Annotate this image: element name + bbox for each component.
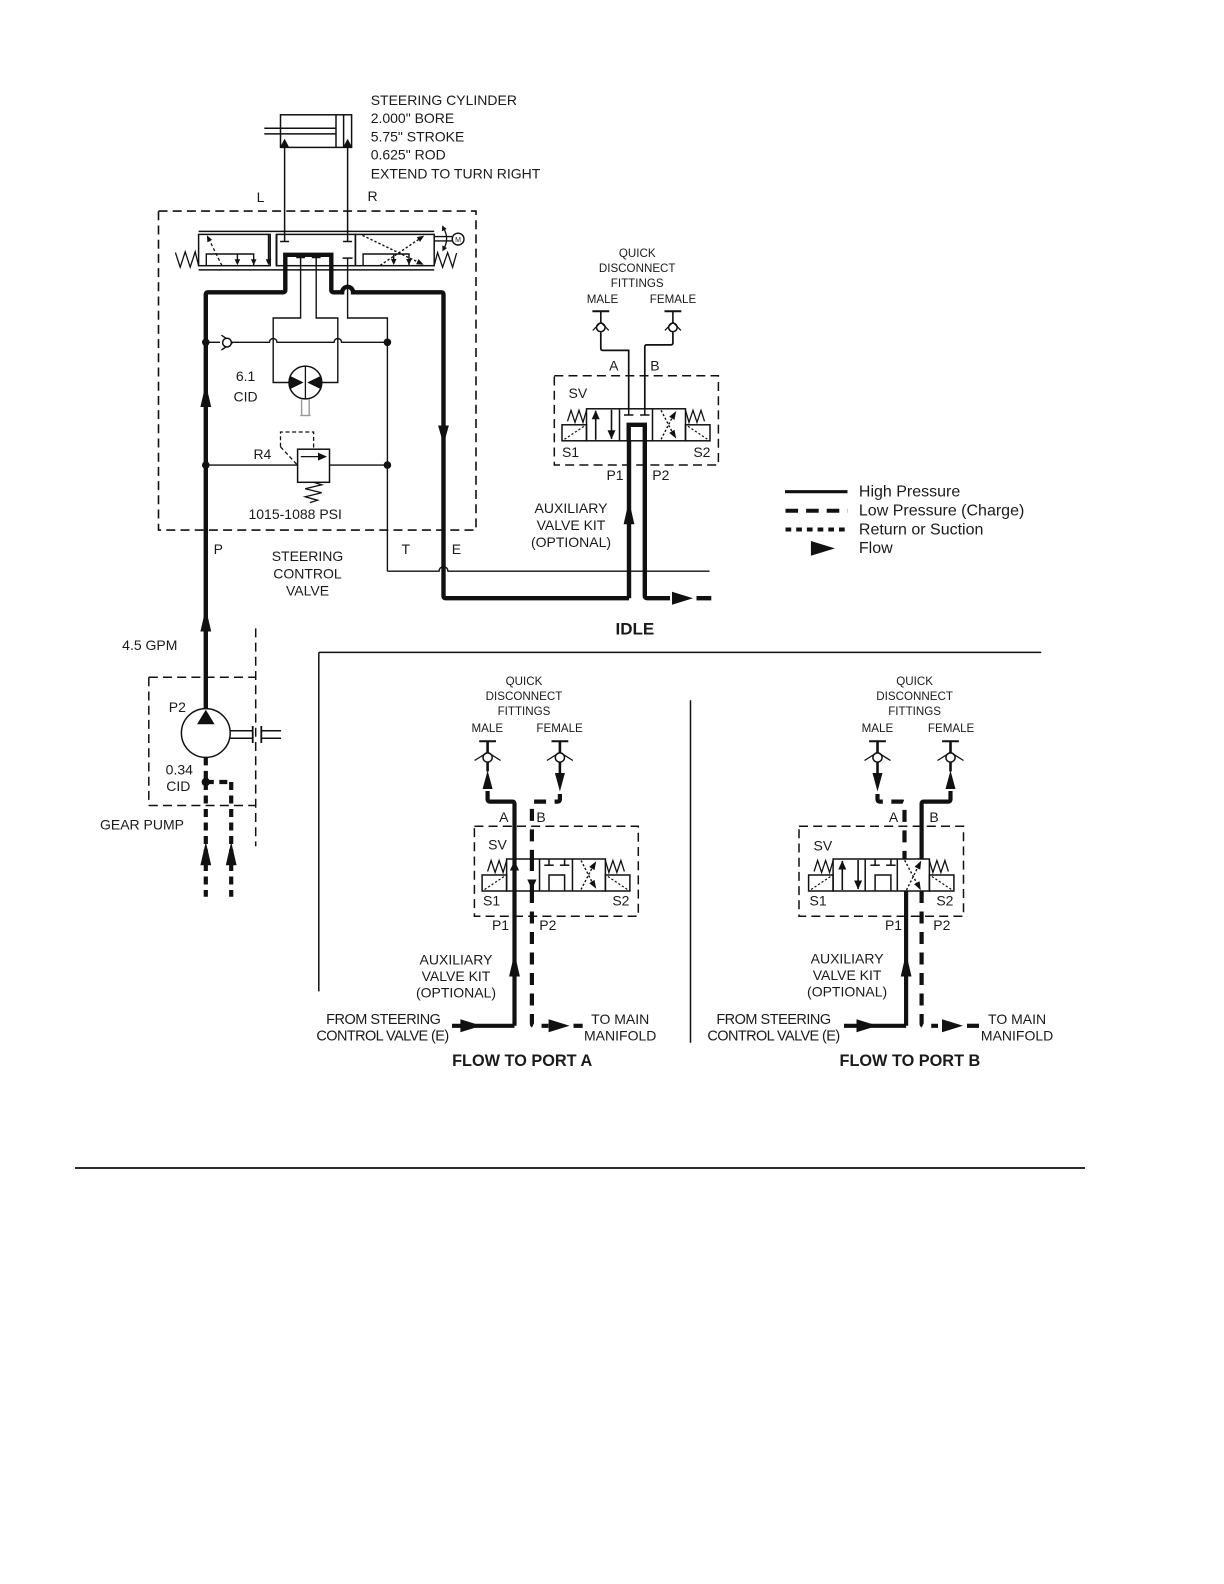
wire P supply thick [206,266,285,709]
svg-text:P2: P2 [933,917,950,933]
portA quick disconnect label [486,675,563,718]
wire return rail [387,567,709,572]
svg-text:P2: P2 [652,467,669,483]
pump drive shaft [230,726,281,743]
svg-text:SV: SV [569,385,588,401]
portA SV left position active flow [510,859,537,891]
portA label from steering [316,1012,448,1045]
svg-text:FITTINGS: FITTINGS [888,705,941,718]
svg-text:FITTINGS: FITTINGS [498,705,551,718]
flow arrow P 1 [200,384,211,408]
svg-text:AUXILIARY: AUXILIARY [420,952,494,968]
legend low pressure [786,509,848,513]
idle male quick disconnect fitting [592,310,609,312]
svg-text:VALVE KIT: VALVE KIT [813,967,882,983]
svg-text:VALVE: VALVE [286,583,329,599]
svg-text:5.75" STROKE: 5.75" STROKE [371,129,465,145]
junction dots check line [202,339,210,347]
relief valve spring [305,482,322,502]
svg-text:FEMALE: FEMALE [536,722,583,735]
relief valve R4 [298,449,330,482]
svg-text:Return or Suction: Return or Suction [859,521,984,538]
idle flow arrow out [672,592,693,605]
portA female fitting [552,740,569,742]
portA wire out dash [574,1024,583,1028]
svg-text:MANIFOLD: MANIFOLD [584,1028,656,1044]
svg-text:CONTROL VALVE (E): CONTROL VALVE (E) [316,1029,448,1045]
svg-text:CONTROL VALVE (E): CONTROL VALVE (E) [707,1029,839,1045]
gear pump enclosure [149,628,256,846]
portB wire A dashed [878,794,905,859]
svg-text:P1: P1 [885,917,902,933]
portA wire A thick [488,791,515,859]
wire R riser [347,147,349,234]
svg-text:MALE: MALE [472,722,504,735]
svg-text:M: M [455,237,461,244]
suction flow arrows [200,842,236,866]
svg-text:A: A [889,809,899,825]
check valve CV1 [221,335,232,350]
label 0.34 CID [166,762,193,795]
idle label auxiliary valve kit [531,500,611,550]
svg-text:0.34: 0.34 [166,762,193,778]
portB female fitting [942,740,959,742]
page rule [75,1167,1085,1169]
steering wheel motor M1 [434,225,464,251]
portA flow arrow out [549,1019,570,1032]
svg-text:S2: S2 [612,893,629,909]
svg-text:P2: P2 [539,917,556,933]
svg-text:L: L [257,189,265,205]
portB wire female stub [949,762,952,772]
svg-text:4.5 GPM: 4.5 GPM [122,637,177,653]
svg-text:QUICK: QUICK [896,675,933,688]
idle female quick disconnect fitting [665,310,682,312]
idle SV right position cross [661,410,676,439]
svg-text:MALE: MALE [862,722,894,735]
svg-text:EXTEND TO TURN RIGHT: EXTEND TO TURN RIGHT [371,166,541,182]
portA flow arrow B down [555,773,565,792]
svg-text:P: P [214,541,223,557]
portB flow arrow in [857,1019,878,1032]
portB wire out dash [967,1024,979,1028]
svg-text:(OPTIONAL): (OPTIONAL) [416,985,496,1001]
svg-text:S1: S1 [810,893,827,909]
steering valve right position box [355,234,434,265]
section border top [319,651,1041,653]
wire L riser [284,147,286,234]
wire R to tank [348,258,388,342]
svg-text:SV: SV [488,837,507,853]
steering valve bottom rail [199,269,435,271]
svg-text:CID: CID [234,389,258,405]
legend return or suction [786,528,848,532]
svg-text:S1: S1 [562,444,579,460]
pump suction lines [206,757,231,896]
portB flow arrow A down [873,773,883,792]
svg-text:SV: SV [814,838,833,854]
label 6.1 CID [234,368,258,405]
idle flow arrow P1 [624,501,635,525]
steering valve right spring [434,253,456,268]
steering valve left spring [175,252,198,267]
idle solenoid valve SV frame [562,409,710,441]
svg-text:FLOW TO PORT A: FLOW TO PORT A [452,1052,592,1070]
idle SV center position blocked [624,409,650,441]
portA wire B dashed [532,794,560,859]
portA SV center position blocked [544,859,569,891]
label steering control valve [272,548,344,599]
idle aux valve kit enclosure [554,376,718,465]
svg-text:High Pressure: High Pressure [859,484,960,501]
steering valve gap lines [269,234,271,265]
svg-text:FROM STEERING: FROM STEERING [326,1012,441,1028]
svg-text:CONTROL: CONTROL [273,565,342,581]
portB solenoid valve SV frame [809,859,954,891]
steering valve left position box [199,234,272,265]
idle wire out dash [697,596,712,600]
steering cylinder [264,115,351,148]
portA wire P1 riser [512,891,516,1026]
portA wire male stub [486,762,489,772]
svg-text:TO MAIN: TO MAIN [591,1011,649,1027]
svg-text:FEMALE: FEMALE [928,722,975,735]
wire E return thick with bump [331,266,629,599]
svg-text:S1: S1 [483,893,500,909]
section border left [318,652,320,991]
svg-text:A: A [499,809,509,825]
portB wire P1 riser [904,891,908,1026]
portB label to main manifold [981,1011,1053,1044]
svg-text:(OPTIONAL): (OPTIONAL) [531,534,611,550]
svg-text:P2: P2 [169,699,186,715]
portA label to main manifold [584,1011,656,1044]
svg-text:A: A [609,358,619,374]
svg-text:AUXILIARY: AUXILIARY [535,500,609,516]
section divider [690,700,692,1042]
portB aux valve kit enclosure [799,826,964,916]
portB flow arrow out [942,1019,963,1032]
svg-text:IDLE: IDLE [616,620,655,639]
wire check line left [206,341,220,343]
portA flow arrow A up [483,771,493,790]
flow arrow E down [438,426,449,445]
steering valve top rail [199,230,435,232]
portA flow arrow P1 [509,953,520,977]
gerotor stem [300,399,310,416]
portB wire P2 dashed out [922,891,938,1026]
svg-text:FLOW TO PORT B: FLOW TO PORT B [840,1052,981,1070]
junction dots relief line [202,461,210,469]
svg-text:B: B [536,809,545,825]
portB flow arrow B up [946,771,956,790]
svg-text:T: T [402,541,411,557]
steering control valve enclosure [159,211,477,530]
svg-text:R: R [367,188,377,204]
svg-text:CID: CID [166,778,190,794]
wire T down [386,342,388,465]
portA wire P2 dashed out [532,891,549,1026]
portA wire female stub [559,762,562,774]
svg-text:R4: R4 [253,446,271,462]
portB flow arrow P1 [901,953,912,977]
svg-text:VALVE KIT: VALVE KIT [537,517,606,533]
svg-text:E: E [452,541,461,557]
wire check line right with bumps [231,339,387,343]
svg-text:FEMALE: FEMALE [650,293,697,306]
portB male fitting [869,740,886,742]
flow arrow P 2 [200,608,211,632]
idle wire female to port B [645,332,673,408]
svg-text:QUICK: QUICK [506,675,543,688]
cylinder port L arrow [280,139,289,147]
wire T to return rail [386,465,388,571]
portB wire B thick [922,791,951,859]
relief valve pilot dashed [281,432,314,449]
idle wire male to port A [601,332,629,408]
svg-text:DISCONNECT: DISCONNECT [876,690,953,703]
svg-text:STEERING CYLINDER: STEERING CYLINDER [371,92,517,108]
svg-text:MANIFOLD: MANIFOLD [981,1028,1053,1044]
portA aux valve kit enclosure [474,826,638,916]
legend high pressure [785,490,848,493]
gear pump P2 [181,709,230,758]
svg-text:P1: P1 [492,917,509,933]
portB SV center position blocked [870,859,895,891]
portA flow arrow in [460,1019,481,1032]
portB SV left position arrows [838,860,862,890]
portB label from steering [707,1012,839,1045]
svg-text:P1: P1 [606,467,623,483]
svg-text:FITTINGS: FITTINGS [611,277,664,290]
svg-text:S2: S2 [693,444,710,460]
portA SV right position cross [581,861,596,890]
svg-text:B: B [929,809,938,825]
cylinder label text [371,92,541,182]
svg-text:AUXILIARY: AUXILIARY [811,951,885,967]
cylinder port R arrow [343,139,352,147]
wire relief line right [330,464,388,466]
portB SV right position active cross [905,860,922,890]
portB wire from steering valve [844,1024,906,1028]
legend flow [811,541,835,556]
portA label auxiliary valve kit [416,952,496,1001]
svg-text:FROM STEERING: FROM STEERING [716,1012,831,1028]
gerotor metering motor 6.1 CID [289,366,322,399]
svg-text:VALVE KIT: VALVE KIT [422,968,491,984]
svg-text:S2: S2 [936,893,953,909]
junction dot suction [202,778,210,786]
svg-text:Low Pressure (Charge): Low Pressure (Charge) [859,503,1024,520]
idle wire P2 out [645,441,670,598]
svg-text:(OPTIONAL): (OPTIONAL) [807,984,887,1000]
portB quick disconnect label [876,675,953,718]
svg-text:STEERING: STEERING [272,548,344,564]
svg-text:6.1: 6.1 [236,368,256,384]
portB wire male stub [876,762,879,774]
wire valve to gerotor right [316,266,338,383]
svg-text:TO MAIN: TO MAIN [988,1011,1046,1027]
steering valve center position box [277,234,356,265]
svg-text:2.000" BORE: 2.000" BORE [371,110,455,126]
svg-text:0.625" ROD: 0.625" ROD [371,147,446,163]
svg-text:B: B [650,358,659,374]
portA male fitting [479,740,496,742]
svg-text:MALE: MALE [587,293,619,306]
svg-text:QUICK: QUICK [619,247,656,260]
portA solenoid valve SV frame [482,859,630,891]
svg-text:DISCONNECT: DISCONNECT [599,262,676,275]
portB label auxiliary valve kit [807,951,887,1000]
svg-text:Flow: Flow [859,540,893,557]
wire valve to gerotor left [273,266,300,383]
portA wire from steering valve [452,1024,515,1028]
idle wire P1 riser thick [627,441,631,598]
idle quick disconnect label [599,247,676,290]
steering valve power beta U [285,255,331,266]
svg-text:GEAR PUMP: GEAR PUMP [100,817,184,833]
svg-text:DISCONNECT: DISCONNECT [486,690,563,703]
idle SV left position arrows [592,410,616,440]
wire relief line left [206,464,298,466]
svg-text:1015-1088 PSI: 1015-1088 PSI [248,506,341,522]
